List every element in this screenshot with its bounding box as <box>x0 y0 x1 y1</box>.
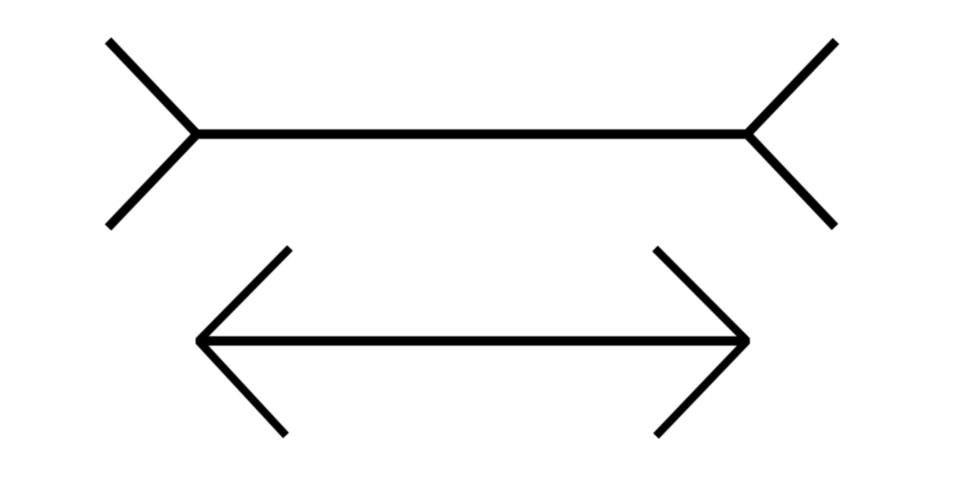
wire top shaft <box>197 129 747 139</box>
wire bottom-left arrowhead <box>199 248 291 436</box>
wire top-left outward fins <box>108 41 197 228</box>
wire top-right outward fins <box>747 41 836 227</box>
wire bottom-right arrowhead <box>655 249 747 437</box>
wire bottom shaft <box>199 336 748 345</box>
